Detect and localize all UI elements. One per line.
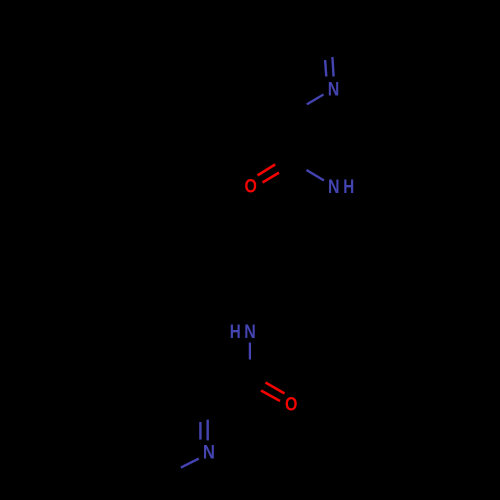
svg-text:O: O [244,175,256,197]
svg-text:N: N [203,441,215,462]
svg-text:H: H [230,320,241,342]
top pyridine C=N double bond, inner line [325,60,326,77]
bottom amide C=O double bond, second line [266,383,285,394]
top pyridine C=N double bond, main line [332,57,333,77]
svg-text:N: N [328,78,340,100]
bottom pyridine C2=N1 double bond, main line [206,420,208,441]
top amide C-N half bond [307,170,325,181]
svg-text:N: N [328,176,340,198]
bottom pyridine N1-C6 half bond [181,459,199,468]
bottom amide N-C half bond (vertical stub) [249,343,251,360]
bottom amide C=O double bond, main line [261,391,280,402]
svg-text:N: N [244,321,256,343]
top pyridine N-C2 half bond [307,95,324,105]
svg-text:O: O [285,393,297,415]
top amide C=O double bond, second line [258,164,276,175]
svg-text:H: H [343,176,354,198]
top amide C=O double bond, main line [263,173,280,183]
bottom pyridine C2=N1 double bond, inner line [199,422,201,440]
